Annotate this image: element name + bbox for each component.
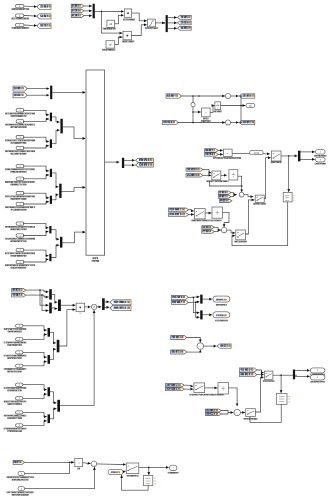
svg-text:1: 1 (19, 250, 20, 252)
svg-text:t1: t1 (293, 194, 294, 197)
svg-text:1: 1 (19, 366, 20, 368)
svg-text:1: 1 (19, 121, 20, 123)
svg-text:1: 1 (19, 223, 20, 225)
svg-text:1: 1 (19, 412, 20, 414)
svg-text:1: 1 (19, 398, 20, 400)
svg-text:2: 2 (320, 159, 321, 161)
svg-text:1: 1 (173, 468, 174, 470)
svg-text:1: 1 (19, 235, 20, 237)
svg-text:1: 1 (19, 166, 20, 168)
svg-text:1: 1 (19, 204, 20, 206)
svg-text:1: 1 (19, 6, 20, 8)
svg-text:1: 1 (21, 473, 22, 475)
svg-text:1: 1 (19, 425, 20, 427)
svg-text:Rs: Rs (79, 313, 81, 315)
svg-text:1: 1 (19, 148, 20, 150)
svg-text:1: 1 (19, 15, 20, 17)
svg-text:1: 1 (320, 152, 321, 154)
svg-text:w2: w2 (288, 399, 290, 401)
svg-text:2: 2 (317, 377, 318, 379)
svg-text:1: 1 (19, 352, 20, 354)
svg-text:(C): (C) (249, 105, 252, 107)
svg-text:h1: h1 (154, 478, 156, 480)
svg-text:1: 1 (21, 488, 22, 490)
svg-text:1: 1 (19, 179, 20, 181)
svg-text:h2: h2 (154, 481, 156, 483)
svg-text:1: 1 (19, 25, 20, 27)
svg-text:1: 1 (19, 326, 20, 328)
svg-text:z: z (217, 107, 218, 109)
svg-text:1: 1 (19, 262, 20, 264)
svg-text:(view): (view) (254, 152, 260, 154)
svg-text:1: 1 (317, 370, 318, 372)
svg-text:1: 1 (19, 339, 20, 341)
svg-text:1: 1 (19, 137, 20, 139)
svg-text:w1: w1 (288, 396, 290, 398)
svg-text:h3: h3 (154, 483, 156, 485)
svg-text:1: 1 (19, 110, 20, 112)
svg-text:w3: w3 (288, 401, 290, 403)
svg-text:1: 1 (19, 385, 20, 387)
svg-text:1: 1 (19, 193, 20, 195)
